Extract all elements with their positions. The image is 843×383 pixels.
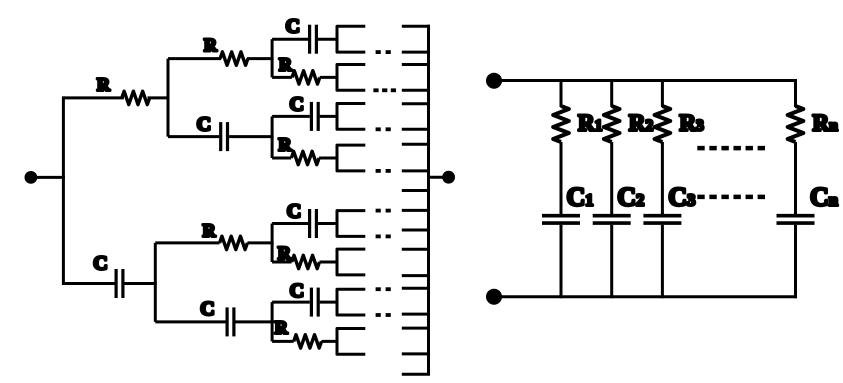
capacitor C (level 3, branch 1) bbox=[310, 25, 317, 54]
wire: continuation fork 6 bbox=[337, 249, 365, 275]
label C2 bbox=[617, 183, 644, 212]
wire: junction level-2 (bottom lower) bbox=[271, 302, 274, 341]
svg-text:R1: R1 bbox=[578, 110, 602, 135]
wire: continuation fork 1 bbox=[337, 26, 365, 52]
ellipsis dots (fork 5 lower) bbox=[376, 234, 391, 238]
capacitor C1 bbox=[542, 216, 580, 223]
ellipsis dots (fork 1) bbox=[376, 50, 391, 54]
label Rn bbox=[813, 110, 839, 135]
wire: level-3 branch 1 (C) bbox=[272, 38, 338, 41]
wire: level-2 branch R (upper of top) bbox=[168, 57, 274, 60]
svg-text:C: C bbox=[285, 16, 299, 38]
ellipsis dots (fork 4) bbox=[376, 169, 391, 173]
wire: branch n middle segment bbox=[794, 142, 797, 214]
ellipsis dots (fork 2) bbox=[373, 88, 396, 92]
capacitor C2 bbox=[593, 216, 631, 223]
svg-text:Rn: Rn bbox=[813, 110, 839, 135]
label C (level 3, branch 5) bbox=[287, 201, 301, 223]
ellipsis dots (fork 3) bbox=[376, 127, 391, 131]
label R (level 2, bottom) bbox=[203, 220, 217, 240]
wire: bus stub 17 bbox=[402, 352, 430, 355]
label C3 bbox=[668, 183, 695, 212]
ellipsis dots (fork 7 upper) bbox=[376, 287, 391, 291]
wire: bus stub 9 bbox=[402, 189, 430, 192]
wire: level-3 branch 6 (R) bbox=[272, 261, 338, 264]
wire: level-2 branch R (upper of bottom) bbox=[155, 241, 273, 244]
node: input terminal (left circuit) bbox=[26, 173, 36, 183]
ellipsis dashes (between C3 and Cn) bbox=[697, 195, 765, 200]
capacitor Cn bbox=[777, 216, 815, 223]
svg-text:C: C bbox=[197, 113, 211, 135]
wire: level-3 branch 3 (C) bbox=[272, 115, 338, 118]
capacitor C (level 3, branch 3) bbox=[311, 102, 318, 131]
wire: bus stub 13 bbox=[402, 274, 430, 277]
wire: bus stub 11 bbox=[402, 229, 430, 232]
label C1 bbox=[567, 183, 594, 212]
wire: level-3 branch 5 (C) bbox=[272, 222, 338, 225]
wire: bus stub 18 bbox=[402, 373, 430, 376]
wire: level-2 branch C (lower of top) bbox=[168, 135, 274, 138]
svg-text:C3: C3 bbox=[668, 183, 695, 212]
wire: branch 3 lower segment bbox=[661, 225, 664, 298]
wire: top rail bbox=[494, 79, 797, 82]
resistor R (level 2, bottom) bbox=[220, 236, 248, 249]
svg-text:R3: R3 bbox=[679, 110, 704, 135]
capacitor C (level 3, branch 7) bbox=[311, 288, 318, 317]
label R1 bbox=[578, 110, 602, 135]
label R2 bbox=[629, 110, 654, 135]
capacitor C (level 1) bbox=[116, 269, 123, 298]
label R (level 3, branch 4) bbox=[278, 135, 292, 155]
wire: continuation fork 2 bbox=[337, 65, 365, 91]
resistor R3 bbox=[655, 106, 671, 142]
wire: input lead bbox=[31, 176, 65, 179]
wire: branch n lower segment bbox=[794, 225, 797, 298]
node: output terminal (left circuit) bbox=[444, 172, 454, 182]
wire: junction level-2 (top lower) bbox=[271, 116, 274, 158]
wire: branch n upper segment bbox=[794, 79, 797, 107]
wire: level-3 branch 2 (R) bbox=[272, 76, 338, 79]
wire: bus stub 1 bbox=[402, 25, 430, 28]
wire: bus stub 6 bbox=[402, 128, 430, 131]
ellipsis dots (fork 5 upper) bbox=[376, 209, 391, 213]
capacitor C (level 2, top) bbox=[221, 122, 228, 151]
wire: bus stub 10 bbox=[402, 209, 430, 212]
svg-text:R: R bbox=[97, 74, 111, 94]
node: top-left terminal (right circuit) bbox=[488, 74, 501, 87]
wire: bus stub 5 bbox=[402, 102, 430, 105]
resistor R2 bbox=[604, 106, 620, 142]
resistor R (level 3, branch 6) bbox=[292, 255, 320, 268]
wire: bus stub 8 bbox=[402, 169, 430, 172]
label R (level 3, branch 8) bbox=[275, 318, 289, 338]
wire: branch 3 upper segment bbox=[661, 79, 664, 107]
wire: bus stub 16 bbox=[402, 327, 430, 330]
wire: branch 2 lower segment bbox=[610, 225, 613, 298]
wire: bottom rail bbox=[494, 295, 797, 298]
svg-text:R: R bbox=[275, 318, 289, 338]
label R (level 1) bbox=[97, 74, 111, 94]
wire: level-2 branch C (lower of bottom) bbox=[155, 320, 273, 323]
svg-text:R: R bbox=[278, 135, 292, 155]
svg-text:C: C bbox=[93, 252, 107, 274]
resistor R (level 3, branch 4) bbox=[291, 151, 319, 164]
label R (level 3, branch 6) bbox=[278, 243, 292, 263]
svg-text:C: C bbox=[200, 298, 214, 320]
ellipsis dots (fork 7 lower) bbox=[376, 313, 391, 317]
wire: branch 1 middle segment bbox=[560, 142, 563, 214]
resistor R (level 3, branch 2) bbox=[292, 71, 320, 84]
wire: terminal bus vertical bbox=[427, 25, 430, 375]
label C (level 3, branch 3) bbox=[289, 93, 303, 115]
svg-text:R: R bbox=[279, 54, 293, 74]
svg-text:C: C bbox=[289, 93, 303, 115]
wire: junction level-1 bottom bbox=[154, 243, 157, 322]
svg-text:R: R bbox=[203, 220, 217, 240]
resistor R (level 3, branch 8) bbox=[294, 335, 322, 348]
wire: branch 2 upper segment bbox=[610, 79, 613, 107]
resistor R (level 2, top) bbox=[220, 52, 248, 65]
wire: level-3 branch 7 (C) bbox=[272, 301, 338, 304]
capacitor C3 bbox=[643, 216, 681, 223]
label R (level 2, top) bbox=[204, 35, 218, 55]
resistor Rn bbox=[788, 106, 804, 142]
resistor R (level 1) bbox=[122, 91, 150, 104]
node: bottom-left terminal (right circuit) bbox=[488, 290, 501, 303]
wire: continuation fork 7 bbox=[337, 289, 365, 315]
wire: branch 1 lower segment bbox=[560, 225, 563, 298]
label C (level 3, branch 7) bbox=[290, 280, 304, 302]
capacitor C (level 2, bottom) bbox=[227, 307, 234, 336]
wire: bus stub 14 bbox=[402, 287, 430, 290]
wire: junction level-2 (top upper) bbox=[271, 39, 274, 77]
wire: continuation fork 4 bbox=[337, 145, 365, 171]
wire: bus stub 3 bbox=[402, 63, 430, 66]
wire: bus stub 2 bbox=[402, 51, 430, 54]
wire: level-3 branch 4 (R) bbox=[272, 157, 338, 160]
svg-text:Cn: Cn bbox=[810, 183, 838, 212]
svg-text:C2: C2 bbox=[617, 183, 644, 212]
wire: bus stub 7 bbox=[402, 143, 430, 146]
svg-text:C: C bbox=[287, 201, 301, 223]
label C (level 2, top) bbox=[197, 113, 211, 135]
label Cn bbox=[810, 183, 838, 212]
label C (level 1) bbox=[93, 252, 107, 274]
wire: continuation fork 5 bbox=[337, 211, 365, 237]
wire: continuation fork 3 bbox=[337, 104, 365, 130]
wire: bus stub 12 bbox=[402, 248, 430, 251]
wire: continuation fork 8 bbox=[337, 329, 365, 355]
label C (level 3, branch 1) bbox=[285, 16, 299, 38]
wire: output lead bbox=[429, 176, 449, 179]
svg-text:R: R bbox=[278, 243, 292, 263]
svg-text:C: C bbox=[290, 280, 304, 302]
wire: junction level-2 (bottom upper) bbox=[271, 224, 274, 263]
wire: bus stub 15 bbox=[402, 313, 430, 316]
wire: level-3 branch 8 (R) bbox=[272, 340, 338, 343]
label C (level 2, bottom) bbox=[200, 298, 214, 320]
wire: branch 3 middle segment bbox=[661, 142, 664, 214]
wire: level-1 bottom branch bbox=[63, 282, 156, 285]
wire: branch 1 upper segment bbox=[560, 79, 563, 107]
label R (level 3, branch 2) bbox=[279, 54, 293, 74]
wire: branch 2 middle segment bbox=[610, 142, 613, 214]
svg-text:C1: C1 bbox=[567, 183, 594, 212]
wire: bus stub 4 bbox=[402, 89, 430, 92]
wire: level-1 top branch bbox=[63, 96, 169, 99]
svg-text:R2: R2 bbox=[629, 110, 654, 135]
svg-text:R: R bbox=[204, 35, 218, 55]
wire: input vertical trunk bbox=[62, 96, 65, 285]
ellipsis dashes (between R3 and Rn) bbox=[697, 146, 765, 151]
capacitor C (level 3, branch 5) bbox=[310, 209, 317, 238]
wire: junction level-1 top bbox=[167, 59, 170, 137]
label R3 bbox=[679, 110, 704, 135]
resistor R1 bbox=[553, 106, 569, 142]
